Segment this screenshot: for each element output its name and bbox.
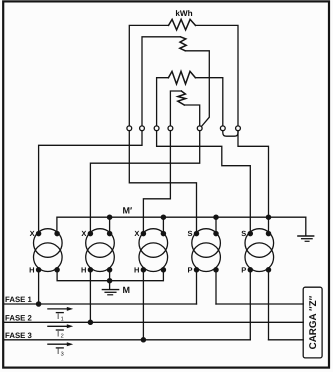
wire terminal 1 down to S1 top-left xyxy=(129,131,196,232)
wire bus stub to S1 top-right xyxy=(215,217,217,233)
svg-text:2: 2 xyxy=(61,334,64,340)
wire terminal 4 down-left to X3 top-left xyxy=(143,131,170,232)
svg-text:M: M xyxy=(123,285,131,295)
junction bottom bus xyxy=(108,279,112,283)
transformer CT2 (S/P) xyxy=(245,229,274,258)
wire terminal 3 down to S2 top-left xyxy=(157,131,251,232)
wire terminal 5 down-left to X2 top-left xyxy=(90,131,199,232)
transformer CT1 (S/P) xyxy=(192,229,221,258)
wire bus stub to X2 top-right xyxy=(109,217,111,233)
svg-text:H: H xyxy=(81,266,86,275)
current arrow I2 xyxy=(48,325,71,327)
current arrow I3 xyxy=(48,343,71,345)
wire P1 left down to FASE 1 xyxy=(196,270,198,304)
svg-text:FASE 1: FASE 1 xyxy=(5,295,33,304)
terminal 6 xyxy=(220,126,225,131)
wire FASE 1 left segment xyxy=(4,303,196,305)
junction H3/FASE3 xyxy=(141,338,145,342)
junction H2/FASE2 xyxy=(88,320,92,324)
svg-text:I: I xyxy=(57,312,59,321)
terminal 4 xyxy=(168,126,173,131)
wire R3 right lead to terminal 6 riser xyxy=(195,78,222,126)
wire terminal 7 down to bus and S2 top-right xyxy=(238,131,269,234)
load box CARGA "Z" xyxy=(303,287,322,358)
svg-text:X: X xyxy=(134,229,139,238)
wire secondary common bus xyxy=(57,217,306,233)
svg-text:3: 3 xyxy=(61,352,64,358)
terminal 7 xyxy=(236,126,241,131)
wire FASE 1 right segment to load xyxy=(216,303,303,305)
wire P2 right down to FASE 3 xyxy=(268,270,270,340)
svg-text:kWh: kWh xyxy=(175,9,192,18)
svg-text:I: I xyxy=(57,347,59,356)
junction bus/S2 xyxy=(266,215,270,219)
wire H3 left to FASE 3 xyxy=(142,270,144,340)
ground (bus right end) xyxy=(305,217,307,235)
svg-text:H: H xyxy=(29,266,34,275)
wire H1 left to FASE 1 xyxy=(38,270,40,304)
junction bus/S1 xyxy=(214,215,218,219)
transformer PT1 (X/H) xyxy=(34,229,63,258)
junction bus/X2 xyxy=(108,215,112,219)
svg-text:FASE 2: FASE 2 xyxy=(5,313,33,322)
wire bus stub to X3 top-right xyxy=(162,217,164,233)
wire terminal 2 down-left to X1 top-left xyxy=(39,131,142,232)
current arrow I1 xyxy=(48,308,71,310)
jumper link terminal 6 to terminal 7 xyxy=(223,131,238,137)
svg-text:I: I xyxy=(57,329,59,338)
transformer PT2 (X/H) xyxy=(86,229,115,258)
terminal 5 xyxy=(197,126,202,131)
wire terminal 2 riser to R2 top xyxy=(142,37,180,126)
terminal 2 xyxy=(140,126,145,131)
svg-text:H: H xyxy=(134,266,139,275)
wire R1 left lead to terminal 1 riser xyxy=(129,25,168,126)
resistor R1 (kWh meter potential coil 1) xyxy=(169,19,196,30)
svg-text:S: S xyxy=(187,229,192,238)
svg-text:M′: M′ xyxy=(123,206,133,216)
terminal 1 xyxy=(127,126,132,131)
wire H2 left to FASE 2 xyxy=(89,270,91,323)
resistor R4 (meter coil, vertical small) xyxy=(178,91,186,105)
wire FASE 3 right segment to load xyxy=(269,339,304,341)
label I3 (phasor) xyxy=(56,347,63,349)
wire FASE 3 left segment xyxy=(4,339,250,341)
label I2 (phasor) xyxy=(56,329,63,331)
wire R2 bottom lead to switch blade at terminal 5 xyxy=(185,51,209,127)
resistor R3 (meter coil, horizontal) xyxy=(168,71,195,84)
wire P1 right down to FASE 1 xyxy=(215,270,217,304)
svg-text:CARGA ″Z″: CARGA ″Z″ xyxy=(308,295,319,349)
junction H1/FASE1 xyxy=(37,302,41,306)
ground M (meter neutral) xyxy=(109,281,111,290)
svg-text:P: P xyxy=(187,266,192,275)
svg-text:P: P xyxy=(241,266,246,275)
resistor R2 (meter coil, vertical) xyxy=(180,37,186,51)
wire FASE 2 xyxy=(4,321,303,323)
label I1 (phasor) xyxy=(56,312,63,314)
wire R4 bottom lead down to terminal 5 xyxy=(184,105,199,126)
terminal 3 xyxy=(154,126,159,131)
wire R1 right lead to terminal 7 riser xyxy=(196,25,239,126)
svg-text:S: S xyxy=(241,229,246,238)
wire H-side common bottom bus xyxy=(57,270,163,281)
wire terminal 4 riser to R4 top xyxy=(170,91,181,126)
wire H2 right to bottom bus xyxy=(109,270,111,281)
junction bus/X3 xyxy=(161,215,165,219)
svg-text:X: X xyxy=(81,229,86,238)
svg-text:X: X xyxy=(30,229,35,238)
svg-text:FASE 3: FASE 3 xyxy=(5,331,33,340)
wire P2 left down to FASE 3 xyxy=(249,270,251,340)
wire terminal 3 riser to R3 left xyxy=(157,78,169,126)
svg-text:1: 1 xyxy=(61,316,64,322)
transformer PT3 (X/H) xyxy=(139,229,168,258)
